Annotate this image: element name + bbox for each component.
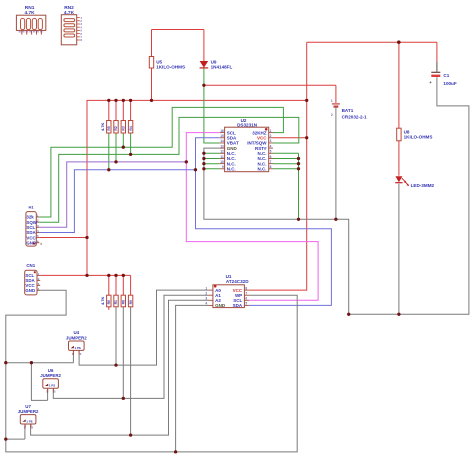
svg-text:BAT1: BAT1	[342, 108, 354, 113]
svg-text:R9: R9	[129, 300, 133, 304]
svg-text:1: 1	[331, 99, 333, 103]
svg-text:6: 6	[270, 155, 272, 159]
svg-text:9: 9	[222, 165, 224, 169]
svg-text:1 P$: 1 P$	[49, 384, 56, 388]
svg-text:N.C.: N.C.	[227, 166, 236, 171]
svg-text:1 P$: 1 P$	[26, 419, 33, 423]
svg-text:R4: R4	[129, 126, 133, 130]
svg-text:CR2032-2-1: CR2032-2-1	[342, 114, 367, 119]
svg-text:2: 2	[205, 292, 207, 296]
svg-text:JUMPER2: JUMPER2	[40, 373, 61, 378]
svg-text:1: 1	[270, 129, 272, 133]
svg-text:7: 7	[270, 160, 272, 164]
svg-text:4.7K: 4.7K	[64, 10, 75, 16]
svg-text:1KILO-OHMS: 1KILO-OHMS	[156, 64, 185, 69]
svg-text:R2: R2	[114, 126, 118, 130]
svg-text:2: 2	[331, 113, 333, 117]
svg-text:R8: R8	[122, 300, 126, 304]
svg-text:C1: C1	[443, 73, 449, 78]
svg-text:GND: GND	[25, 288, 35, 293]
svg-text:R6: R6	[107, 300, 111, 304]
svg-text:8: 8	[245, 286, 247, 290]
svg-text:2: 2	[270, 134, 272, 138]
svg-text:3: 3	[205, 297, 207, 301]
svg-text:1: 1	[205, 286, 207, 290]
svg-text:SDA: SDA	[233, 303, 243, 308]
svg-text:1KILO-OHMS: 1KILO-OHMS	[404, 134, 433, 139]
svg-text:DS3231N: DS3231N	[237, 123, 258, 128]
svg-text:16: 16	[220, 129, 224, 133]
svg-text:13: 13	[220, 144, 224, 148]
svg-text:11: 11	[220, 155, 224, 159]
svg-text:4.7K: 4.7K	[100, 296, 105, 305]
svg-text:1N4148FL: 1N4148FL	[211, 64, 233, 69]
svg-text:4.7K: 4.7K	[25, 10, 36, 16]
svg-text:AT24C32D: AT24C32D	[226, 279, 249, 284]
svg-text:10: 10	[220, 160, 224, 164]
svg-text:N.C.: N.C.	[258, 166, 267, 171]
svg-text:JUMPER2: JUMPER2	[66, 335, 87, 340]
svg-text:100uF: 100uF	[443, 81, 456, 86]
svg-text:LED-3MM2: LED-3MM2	[411, 183, 435, 188]
svg-text:1 P$: 1 P$	[75, 346, 82, 350]
svg-text:4.7K: 4.7K	[100, 122, 105, 131]
svg-text:14: 14	[220, 139, 224, 143]
svg-text:R3: R3	[122, 126, 126, 130]
svg-text:JUMPER2: JUMPER2	[18, 409, 39, 414]
svg-text:GND: GND	[215, 303, 226, 308]
svg-text:5: 5	[270, 150, 272, 154]
svg-text:12: 12	[220, 150, 224, 154]
svg-text:4: 4	[205, 302, 207, 306]
svg-text:7: 7	[245, 292, 247, 296]
svg-text:R5: R5	[107, 126, 111, 130]
svg-text:6: 6	[245, 297, 247, 301]
svg-text:R1: R1	[114, 300, 118, 304]
svg-text:H1: H1	[29, 205, 35, 210]
svg-text:4: 4	[270, 144, 272, 148]
svg-text:CN1: CN1	[26, 263, 35, 268]
svg-text:8: 8	[270, 165, 272, 169]
svg-text:15: 15	[220, 134, 224, 138]
svg-text:3: 3	[270, 139, 272, 143]
svg-text:5: 5	[245, 302, 247, 306]
